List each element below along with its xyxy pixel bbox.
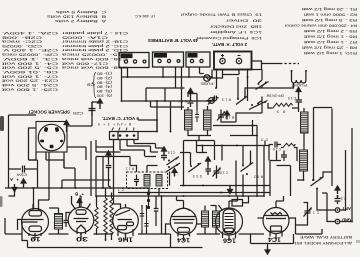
wire B2 right drop xyxy=(175,67,177,88)
variable padder C14 xyxy=(217,110,225,123)
ground near C14 xyxy=(225,111,230,119)
tube V5 1C6 xyxy=(216,208,243,235)
wire 1C4IF top xyxy=(177,196,184,208)
wire tube19 plate leads xyxy=(33,200,49,211)
oscillator coil L6 xyxy=(204,110,212,130)
pilot light P xyxy=(291,70,308,83)
wire osc coils bottom xyxy=(188,130,211,140)
wire y152 segments xyxy=(180,153,207,166)
wire trimmer C13 tops xyxy=(142,205,147,234)
wire tube19 left pins xyxy=(18,220,27,235)
wire R5 R6 bottoms xyxy=(106,233,112,240)
terminal ANT xyxy=(335,206,351,212)
wire ANT lead xyxy=(317,189,335,211)
ground below 1C4 RF xyxy=(265,247,270,255)
wire A battery drops xyxy=(223,70,240,75)
wire x161 vertical xyxy=(161,196,163,234)
wire C strip drops xyxy=(114,140,135,205)
wire bus y88 xyxy=(146,83,285,89)
wire bus under batteries xyxy=(122,76,213,78)
wire bottom bus y234 xyxy=(5,218,171,234)
wire osc coil top leads xyxy=(188,94,208,111)
series cap at R13 xyxy=(213,96,219,101)
wire 1H6 pins xyxy=(118,229,133,240)
RF coil L2 upper xyxy=(301,112,309,133)
resistor R9 xyxy=(272,103,292,108)
battery B3 xyxy=(186,52,210,67)
wire C24 links xyxy=(9,160,38,188)
wire T2 leads xyxy=(205,206,216,235)
wire SW2 leads xyxy=(238,77,262,99)
on-off switch SW1 pole 1 xyxy=(256,82,269,90)
resistor R6 xyxy=(110,197,113,234)
wire C10 drop xyxy=(298,107,300,109)
variable cap C18 xyxy=(213,166,229,179)
ground left of T1 xyxy=(106,151,111,159)
wire bus y101 xyxy=(122,100,216,102)
fuse F1 xyxy=(204,75,211,82)
tube V1 19 xyxy=(22,209,49,236)
wire y125 y135 right xyxy=(213,120,257,151)
bead lead wire xyxy=(148,190,150,209)
wire contacts drop xyxy=(169,172,171,186)
wire x181 long vertical xyxy=(181,67,183,110)
wire right verticals xyxy=(314,108,333,187)
wire R5 R6 tops xyxy=(106,188,112,197)
ground right area at 170 xyxy=(172,169,177,177)
wire x345 vertical xyxy=(340,150,346,210)
wire grid cap 30 xyxy=(64,213,72,228)
wire antenna coil bottom xyxy=(297,171,304,180)
wire R2 leads xyxy=(96,196,98,234)
wire y160-165 right xyxy=(270,151,291,197)
switch SW5 contacts xyxy=(241,163,264,179)
smudge left edge xyxy=(0,116,360,243)
wire RF pins xyxy=(258,218,296,234)
IF transformer T2 coil b xyxy=(213,211,220,227)
wire R9 leads xyxy=(268,103,299,112)
wire B1 right drop xyxy=(127,68,129,78)
wire x352 vertical xyxy=(340,128,352,222)
coupling capacitor C6 xyxy=(154,200,159,219)
dashed lead to pilot xyxy=(280,63,299,65)
bead lead dots xyxy=(147,192,150,209)
trimmer pair C13 xyxy=(140,209,149,230)
IF transformer T1 dashed box xyxy=(127,172,168,189)
capacitor C16 xyxy=(273,147,287,161)
wire x96 x103 verticals xyxy=(91,140,114,196)
ground arrow right xyxy=(335,186,340,194)
wire x118 drop xyxy=(117,132,119,141)
band switch SW2 contacts xyxy=(236,96,248,105)
wire pilot drop xyxy=(285,83,294,88)
on-off switch SW1 pole 2 xyxy=(249,101,268,110)
wire tube19 bottom xyxy=(29,233,41,240)
ground at C25 xyxy=(98,99,103,107)
wire choke leads xyxy=(49,208,59,234)
wire switch drop from A xyxy=(259,70,263,84)
capacitor C15 mid right xyxy=(269,142,281,148)
wire RF top xyxy=(276,196,284,208)
tube V2 30 xyxy=(68,207,94,233)
terminal +B arrow up xyxy=(75,192,84,207)
wire y180 upper link xyxy=(62,180,103,188)
variable cap C1D at RF tube xyxy=(304,206,320,219)
wire left drop y240 xyxy=(22,234,28,248)
wire C15 R8 links xyxy=(265,141,297,162)
wire bottom right y244 xyxy=(251,229,323,244)
band switch SW8 contacts xyxy=(167,163,181,172)
wire C1D leads xyxy=(296,203,308,226)
wire GND lead xyxy=(322,193,335,222)
output choke L7 xyxy=(55,214,63,230)
wire bottom bus y247 xyxy=(28,234,265,248)
wire 1C6 top leads xyxy=(219,196,238,211)
capacitor C10 xyxy=(296,95,303,107)
wire B2 drop xyxy=(162,67,164,77)
wire 1C4IF pins xyxy=(166,224,202,234)
ground above C17 xyxy=(188,89,193,97)
IF transformer T2 coil a xyxy=(202,211,209,227)
C battery strip xyxy=(110,132,139,140)
band switch SW7 contacts xyxy=(167,157,180,166)
capacitor C24 xyxy=(16,166,30,173)
tube V6 1C4 RF xyxy=(263,208,289,234)
wire y172 link right xyxy=(323,172,332,178)
ground cap C13 mid xyxy=(162,147,167,155)
wire batt verticals xyxy=(146,88,171,132)
wire RF bottom xyxy=(270,231,282,239)
cap at T1 left C19 xyxy=(106,166,112,187)
wire 1C4IF bottom xyxy=(178,232,190,240)
wire bus y185 xyxy=(180,185,270,187)
resistor R2 xyxy=(95,206,98,229)
wire y113-120 links xyxy=(221,97,262,123)
wire x49 vertical xyxy=(48,153,50,201)
padder box C31 xyxy=(232,200,243,207)
wire right battery drops xyxy=(212,70,248,102)
wire C6 links xyxy=(155,196,157,226)
switch SW6 contacts right xyxy=(311,177,324,190)
C battery terminal labels xyxy=(98,122,135,126)
capacitor C3 right xyxy=(335,195,347,204)
terminal GND xyxy=(335,218,351,224)
capacitor C25 xyxy=(89,102,96,116)
cap to ground C20 xyxy=(206,157,212,175)
capacitor C17 xyxy=(188,97,194,108)
tube V4 1C4 IF xyxy=(170,208,196,234)
wire pilot feed xyxy=(262,63,280,65)
ground below SW4 xyxy=(228,186,233,194)
wire strip jogs xyxy=(120,144,156,157)
battery A xyxy=(214,52,252,70)
wire A battery right lead xyxy=(248,61,262,70)
speaker socket xyxy=(36,122,67,153)
C battery terminal arrows xyxy=(112,128,134,131)
wire speaker drops xyxy=(46,153,64,169)
osc trimmer C21 xyxy=(195,110,199,122)
wire bus y107 xyxy=(151,106,185,108)
terminal +A xyxy=(10,177,19,192)
ground at C10 xyxy=(296,88,301,96)
ground at speaker xyxy=(64,121,69,129)
wire tube30 top xyxy=(72,196,91,210)
oscillator coil L5 xyxy=(185,110,193,130)
wire B3 drops xyxy=(189,67,200,77)
tube V3 1H6 xyxy=(113,208,139,234)
wire y140 links xyxy=(184,141,215,186)
wire buses y192 y196 xyxy=(96,193,270,197)
wire B1 left drop xyxy=(121,68,123,102)
wire L2 upper leads xyxy=(303,108,305,150)
ground near +A xyxy=(21,179,26,187)
wire 1H6 top xyxy=(114,204,126,209)
rheostat R13 xyxy=(207,96,217,104)
bracket brace xyxy=(93,73,97,99)
resistor R8 small xyxy=(282,143,295,147)
wire y160 left links xyxy=(29,160,76,188)
wire bus y188 xyxy=(5,187,150,189)
wire left edge xyxy=(9,115,37,188)
battery B2 xyxy=(153,52,184,67)
wire y148-156 bundle xyxy=(96,148,164,157)
wire 1C6 bottom xyxy=(223,232,236,241)
wire fuse leads xyxy=(200,74,240,79)
battery B1 xyxy=(119,53,149,68)
wire y131 bus xyxy=(118,120,157,132)
resistor R5 xyxy=(104,197,107,234)
antenna coil L1 lower xyxy=(300,150,308,171)
wire T1 connects xyxy=(130,157,159,197)
switch SW4 contacts mid xyxy=(189,163,202,172)
wire y145 bus xyxy=(197,146,271,161)
wire mid verticals xyxy=(236,146,264,197)
wire tube30 bottom xyxy=(77,230,86,241)
wire 1C6 right pad xyxy=(243,196,249,203)
wire verticals to tube19 xyxy=(9,188,34,209)
wire speaker box leads xyxy=(29,102,93,160)
